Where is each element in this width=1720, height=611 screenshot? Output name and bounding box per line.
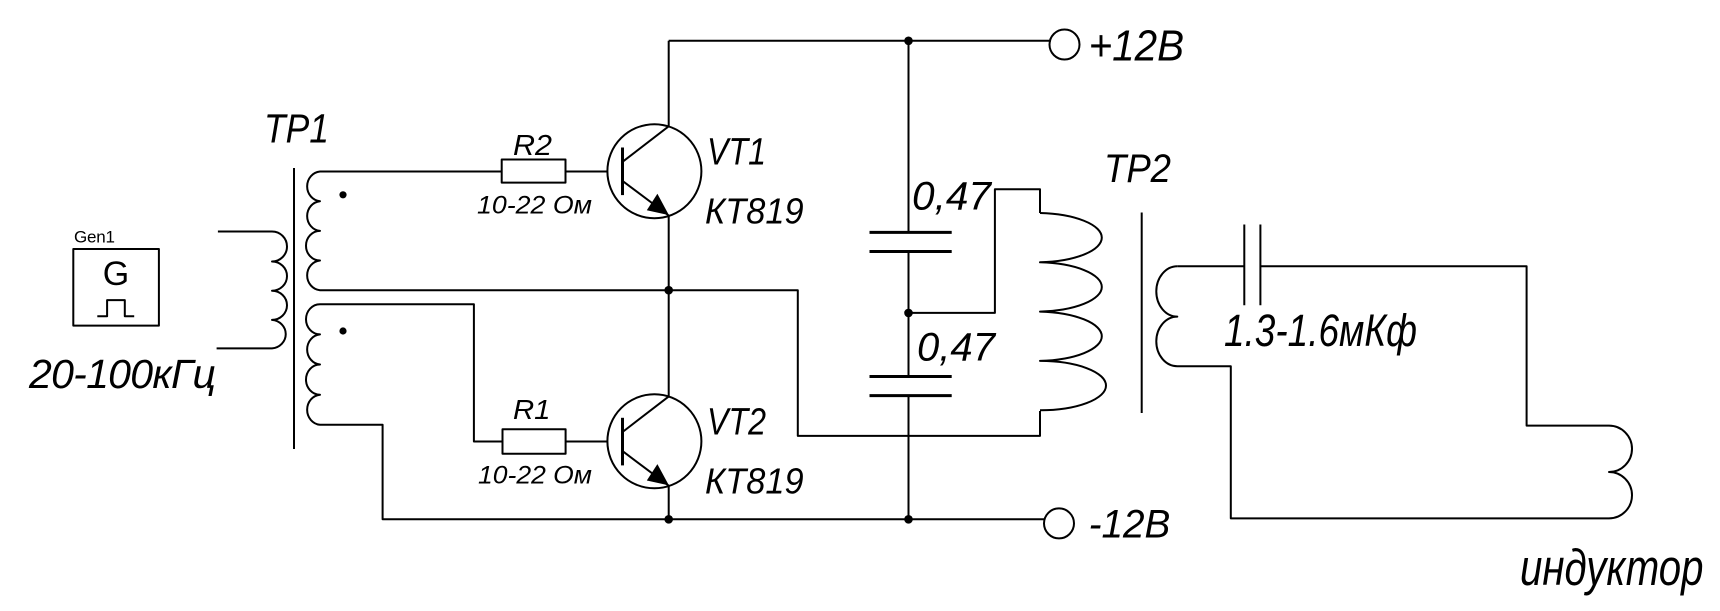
svg-text:10-22 Ом: 10-22 Ом xyxy=(477,192,592,220)
svg-text:0,47: 0,47 xyxy=(917,325,997,369)
svg-text:R1: R1 xyxy=(513,394,551,425)
svg-text:ТР2: ТР2 xyxy=(1104,147,1171,191)
svg-text:1.3-1.6мКф: 1.3-1.6мКф xyxy=(1224,305,1417,356)
svg-text:+12В: +12В xyxy=(1089,22,1184,71)
svg-text:ТР1: ТР1 xyxy=(264,106,329,152)
svg-text:Gen1: Gen1 xyxy=(74,228,115,247)
svg-text:VT2: VT2 xyxy=(707,402,766,444)
svg-text:G: G xyxy=(103,255,129,293)
svg-text:-12В: -12В xyxy=(1089,503,1171,547)
svg-text:10-22 Ом: 10-22 Ом xyxy=(478,462,592,490)
svg-text:0,47: 0,47 xyxy=(912,175,993,219)
svg-text:VT1: VT1 xyxy=(707,132,766,174)
svg-text:индуктор: индуктор xyxy=(1520,539,1704,596)
svg-text:КТ819: КТ819 xyxy=(705,460,804,501)
svg-text:КТ819: КТ819 xyxy=(705,190,804,231)
svg-text:20-100кГц: 20-100кГц xyxy=(28,351,216,397)
svg-text:R2: R2 xyxy=(513,130,552,162)
